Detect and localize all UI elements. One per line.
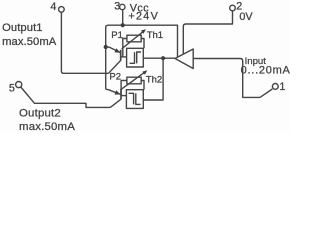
svg-text:max.50mA: max.50mA bbox=[19, 121, 75, 132]
svg-text:Th1: Th1 bbox=[147, 30, 163, 41]
wire Th1 output to amplifier output node bbox=[143, 57, 175, 59]
terminal 4 bbox=[59, 7, 65, 13]
svg-text:Output1: Output1 bbox=[2, 22, 43, 34]
wire emitter rail bbox=[105, 44, 107, 89]
schmitt trigger Th1 bbox=[127, 48, 144, 67]
svg-text:5: 5 bbox=[9, 82, 15, 94]
svg-text:max.50mA: max.50mA bbox=[2, 36, 57, 48]
terminal 1 bbox=[272, 84, 278, 90]
wire branch to Th2 input bbox=[143, 58, 163, 100]
op-amp U1 input amplifier bbox=[175, 49, 193, 69]
wire Vcc rail bbox=[106, 25, 178, 57]
potentiometer P1 bbox=[122, 29, 146, 57]
wire 0V line from terminal 2 to amplifier bbox=[183, 11, 232, 54]
svg-text:1: 1 bbox=[279, 81, 285, 93]
svg-text:4: 4 bbox=[50, 1, 56, 13]
svg-text:Th2: Th2 bbox=[146, 75, 162, 86]
potentiometer P2 bbox=[121, 70, 148, 95]
node junction terminal 3 on Vcc rail bbox=[121, 23, 125, 27]
wire terminal 3 lead bbox=[122, 10, 124, 25]
wire terminal 1 lead bbox=[260, 89, 272, 97]
terminal 5 bbox=[16, 82, 22, 88]
wire amplifier input from terminal 1 bbox=[193, 59, 260, 98]
svg-text:P2: P2 bbox=[109, 72, 121, 83]
transistor Q1 bbox=[106, 47, 127, 73]
svg-text:+24V: +24V bbox=[128, 10, 159, 22]
svg-text:3: 3 bbox=[114, 1, 120, 13]
svg-text:P1: P1 bbox=[111, 30, 123, 41]
terminal 3 bbox=[120, 4, 125, 9]
node junction Q1 emitter tap bbox=[104, 45, 108, 49]
svg-text:Output2: Output2 bbox=[19, 108, 61, 120]
svg-text:0V: 0V bbox=[239, 11, 253, 23]
wire Output1 from terminal 4 to Q1 collector bbox=[61, 12, 108, 73]
node junction on amplifier output bbox=[161, 56, 165, 60]
terminal 2 bbox=[230, 5, 236, 11]
schmitt trigger Th2 bbox=[126, 90, 143, 109]
transistor Q2 bbox=[106, 89, 127, 107]
wire Output2 from terminal 5 to Q2 collector bbox=[21, 87, 111, 107]
svg-text:0...20mA: 0...20mA bbox=[241, 65, 290, 77]
